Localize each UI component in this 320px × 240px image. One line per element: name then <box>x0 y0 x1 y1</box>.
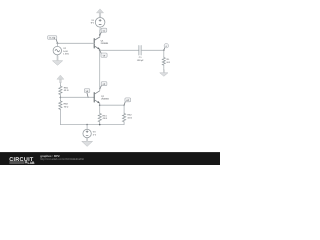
corner junction at RL top <box>163 50 165 52</box>
label RB1 <box>64 86 69 92</box>
svg-text:10 Ω: 10 Ω <box>127 117 132 120</box>
svg-text:2N3904: 2N3904 <box>101 97 109 100</box>
wire V1 bottom to Q1 collector <box>99 27 101 30</box>
bottom rail wire <box>60 124 124 126</box>
voltage source V1 <box>95 18 105 28</box>
junction RE2 corner <box>123 105 124 106</box>
wire RB2 bottom to rail <box>59 110 61 125</box>
label V2 1mV 1kHz <box>63 47 69 55</box>
junction node at V2 top <box>57 43 59 45</box>
transistor Q1 <box>94 37 100 49</box>
label V3 4V <box>93 131 97 137</box>
label RE1 <box>103 114 108 120</box>
label C1 100uF <box>137 56 145 62</box>
resistor RB1 <box>59 86 62 96</box>
wire out to C1 <box>100 49 139 51</box>
label RE2 <box>127 114 132 120</box>
junction base Q2 <box>60 97 62 99</box>
wire emitter rail to RE2 <box>100 104 124 106</box>
wire RB1 top <box>59 83 61 86</box>
output node circle <box>164 44 169 51</box>
svg-text:1mV: 1mV <box>63 50 68 53</box>
power flag VCC1 above V1 <box>97 9 104 17</box>
resistor RE1 <box>98 113 101 122</box>
svg-text:100 µF: 100 µF <box>137 59 145 62</box>
junction collector Q2 node <box>99 88 100 89</box>
wire V2 top <box>56 43 58 46</box>
svg-text:75 Ω: 75 Ω <box>64 105 69 108</box>
svg-text:http://circuitlab.com/c/bfm588: http://circuitlab.com/c/bfm5884b4d6b <box>40 158 84 161</box>
label RL 8ohm <box>167 58 171 64</box>
svg-text:1 kHz: 1 kHz <box>63 53 69 56</box>
wire Q1 base <box>57 42 94 44</box>
flag IN node label <box>48 36 58 44</box>
flag VE1 node label <box>100 51 107 58</box>
ground G2 under RL <box>160 70 168 77</box>
capacitor C1 <box>139 46 141 56</box>
wire RE1 bottom <box>99 122 101 124</box>
wire Q2 emitter down <box>99 103 101 113</box>
footer bar <box>0 152 220 165</box>
svg-text:in_sig: in_sig <box>49 37 56 40</box>
junction emitter rail <box>99 104 101 106</box>
CircuitLab logo <box>9 157 35 165</box>
wire RB1 bottom / junction <box>59 95 61 100</box>
resistor RB2 <box>59 101 62 111</box>
wire RL top <box>163 50 165 57</box>
label RB2 <box>64 103 69 109</box>
power flag VCC2 above RB1 <box>57 75 64 83</box>
wire V3 bottom <box>86 138 88 142</box>
junction V3 top <box>86 124 88 126</box>
svg-text:LAB: LAB <box>28 161 36 165</box>
wire V2 bottom <box>56 55 58 61</box>
svg-text:4 V: 4 V <box>93 133 97 136</box>
label Q1 2N3904 <box>101 39 109 44</box>
flag VC2 node label <box>100 82 107 89</box>
ground G1 under V2 <box>52 56 62 65</box>
flag VB node label <box>84 89 90 98</box>
wire RE2 top <box>123 105 125 113</box>
flag VC node label <box>100 28 107 35</box>
label V1 9V <box>91 19 95 25</box>
wire C1 to output corner <box>141 49 164 51</box>
label Q2 2N3904 <box>101 95 109 101</box>
voltage source V2 (AC) <box>53 46 61 54</box>
resistor RE2 <box>123 113 126 122</box>
junction at out node <box>99 50 101 52</box>
voltage source V3 <box>83 129 91 137</box>
flag VE2 node label <box>124 98 131 105</box>
wire V1 top <box>99 17 101 18</box>
wire RL bottom <box>163 65 165 70</box>
transistor Q2 <box>94 91 100 103</box>
wire Q1 emitter to Q2 collector <box>99 49 101 90</box>
wire Q2 base <box>60 96 94 98</box>
svg-text:43 Ω: 43 Ω <box>103 117 108 120</box>
junction RE1 bottom <box>99 124 101 126</box>
svg-text:9 V: 9 V <box>91 22 95 25</box>
svg-text:2N3904: 2N3904 <box>101 42 109 45</box>
wire RE2 bottom <box>123 122 125 124</box>
junction collector node <box>99 34 100 35</box>
svg-text:40 Ω: 40 Ω <box>64 89 69 92</box>
resistor RL <box>162 57 165 65</box>
ground G3 under V3 <box>82 138 93 147</box>
svg-text:8 Ω: 8 Ω <box>167 61 171 64</box>
wire V3 top <box>86 125 88 130</box>
